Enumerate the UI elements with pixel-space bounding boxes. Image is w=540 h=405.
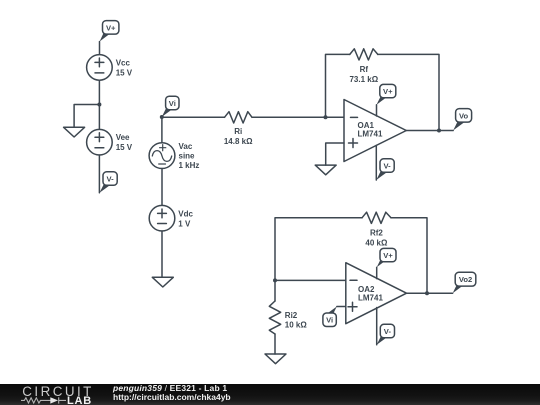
wire OA2 inverting input xyxy=(275,279,346,281)
svg-text:15 V: 15 V xyxy=(116,143,133,152)
voltage source Vdc xyxy=(149,205,193,231)
svg-text:V-: V- xyxy=(384,327,392,336)
wire feedback left (up from junction) xyxy=(326,54,350,117)
footer title text xyxy=(113,384,227,392)
svg-text:Ri: Ri xyxy=(234,127,242,136)
svg-text:Ri2: Ri2 xyxy=(285,311,298,320)
ground (below Ri2) xyxy=(265,354,286,364)
svg-text:sine: sine xyxy=(179,152,196,161)
svg-text:Vac: Vac xyxy=(179,142,193,151)
svg-text:10 kΩ: 10 kΩ xyxy=(285,321,308,330)
resistor Rf xyxy=(349,49,378,84)
voltage source Vee xyxy=(87,129,133,155)
net flag Vo xyxy=(453,109,471,131)
wire OA1 non-inverting input to ground xyxy=(326,143,344,165)
resistor Rf2 xyxy=(362,212,391,247)
junction (OA1 output node) xyxy=(437,129,441,133)
op-amp OA2 xyxy=(346,263,407,324)
svg-text:1 kHz: 1 kHz xyxy=(179,161,200,170)
ground (left) xyxy=(64,127,85,137)
resistor Ri2 xyxy=(269,301,307,334)
wire feedback2 left (up from junction) xyxy=(275,218,362,281)
net flag Vi (OA2) xyxy=(323,307,337,327)
wire V+ to Vcc xyxy=(99,42,101,55)
wire Vi node to Vac xyxy=(161,117,163,143)
svg-text:73.1 kΩ: 73.1 kΩ xyxy=(349,75,378,84)
junction (OA2 output node) xyxy=(425,291,429,295)
ground (OA1 non-inverting) xyxy=(315,165,336,175)
svg-text:1 V: 1 V xyxy=(178,220,191,229)
svg-text:V+: V+ xyxy=(106,23,116,32)
wire Vi node to Ri xyxy=(162,116,225,118)
svg-text:Vo: Vo xyxy=(459,111,469,120)
ground (below Vdc) xyxy=(152,277,173,287)
voltage source Vac xyxy=(149,142,199,170)
junction (OA2 inverting node) xyxy=(273,278,277,282)
svg-text:15 V: 15 V xyxy=(116,68,133,77)
svg-text:Vi: Vi xyxy=(326,316,333,325)
svg-text:Rf2: Rf2 xyxy=(370,228,383,237)
resistor Ri xyxy=(224,112,253,146)
junction (OA1 inverting node) xyxy=(324,115,328,119)
wire feedback2 right (down to output) xyxy=(391,218,427,293)
wire Vee to V- xyxy=(98,155,100,193)
svg-text:14.8 kΩ: 14.8 kΩ xyxy=(224,137,253,146)
wire Vdc to ground xyxy=(161,231,163,277)
wire Vcc to Vee xyxy=(98,80,100,129)
net flag V- (left) xyxy=(100,172,118,193)
wire OA2 non-inverting input xyxy=(337,306,346,308)
net flag Vo2 xyxy=(453,272,476,293)
svg-text:V+: V+ xyxy=(383,87,393,96)
svg-text:V-: V- xyxy=(107,175,115,184)
net flag V+ (OA1) xyxy=(377,84,396,104)
net flag Vi (source) xyxy=(160,96,179,119)
op-amp OA1 xyxy=(344,100,406,162)
wire OA2 output xyxy=(407,292,453,294)
svg-text:Rf: Rf xyxy=(360,65,369,74)
wire OA2 V- pin xyxy=(376,308,378,345)
wire OA1 output xyxy=(406,130,453,132)
footer bar xyxy=(0,384,540,405)
svg-text:Vdc: Vdc xyxy=(178,210,193,219)
wire junction to Ri2 xyxy=(274,280,276,301)
svg-text:Vi: Vi xyxy=(169,99,176,108)
svg-text:LM741: LM741 xyxy=(358,129,383,138)
svg-text:Vee: Vee xyxy=(116,133,130,142)
wire Vac to Vdc xyxy=(161,169,163,206)
wire to ground (left) xyxy=(74,105,99,128)
svg-text:LAB: LAB xyxy=(67,395,92,405)
svg-text:LM741: LM741 xyxy=(358,293,383,302)
wire Ri to OA1 inverting input xyxy=(252,116,344,118)
svg-text:Vcc: Vcc xyxy=(116,58,131,67)
svg-text:V-: V- xyxy=(384,162,392,171)
CircuitLab logo xyxy=(0,384,110,405)
net flag V- (OA2) xyxy=(377,324,395,345)
voltage source Vcc xyxy=(87,55,133,81)
footer url text xyxy=(113,393,231,401)
net flag V- (OA1) xyxy=(376,159,394,180)
wire OA1 V+ pin xyxy=(376,105,378,116)
svg-text:40 kΩ: 40 kΩ xyxy=(365,238,388,247)
svg-text:Vo2: Vo2 xyxy=(459,275,472,284)
wire OA2 V+ pin xyxy=(376,267,378,278)
wire feedback right (down to output) xyxy=(378,54,439,130)
net flag V+ (OA2) xyxy=(377,248,396,267)
wire OA1 V- pin xyxy=(375,145,377,180)
svg-text:V+: V+ xyxy=(383,251,393,260)
net flag V+ (top left) xyxy=(100,21,119,42)
wire Ri2 to ground xyxy=(274,334,276,354)
junction (left rail) xyxy=(97,103,101,107)
